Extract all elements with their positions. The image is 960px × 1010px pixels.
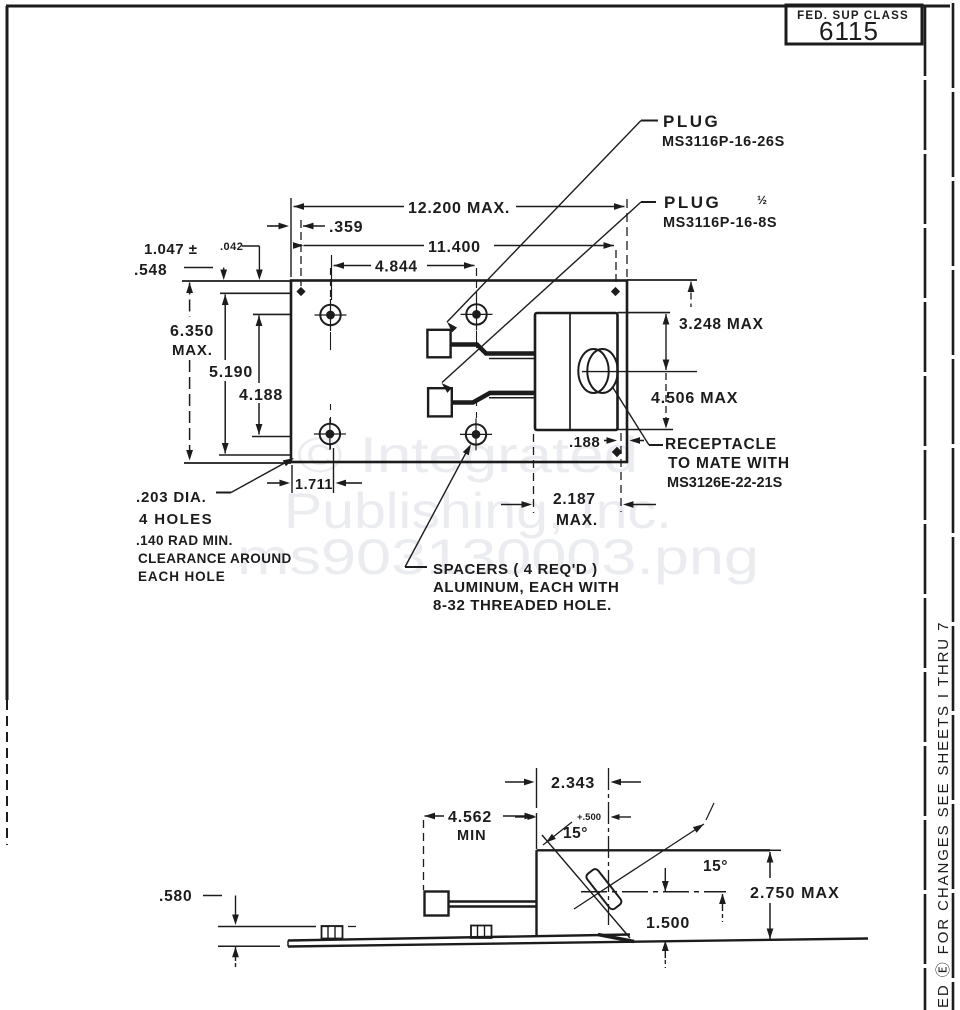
dimension 4.188 vertical <box>256 316 263 327</box>
extension line spacer top level <box>218 926 316 928</box>
dimension 3.248 MAX vertical <box>688 282 695 293</box>
svg-text:.359: .359 <box>329 219 363 236</box>
dimension 2.750 MAX <box>767 852 774 863</box>
fed sup class title box <box>786 5 922 44</box>
svg-text:2.750 MAX: 2.750 MAX <box>750 885 840 902</box>
mounting plate outline <box>291 281 627 463</box>
svg-text:MIN: MIN <box>457 828 487 844</box>
tilted connector body <box>585 868 623 911</box>
vertical center line through connector <box>608 768 610 925</box>
wire from plug P2 <box>452 393 535 403</box>
svg-text:.140 RAD MIN.: .140 RAD MIN. <box>136 533 233 548</box>
leader to plug P2 <box>641 201 656 203</box>
dimension 4.844 <box>331 255 333 300</box>
leader to spacer hole <box>405 566 427 568</box>
dimension 11.400 <box>293 242 304 249</box>
svg-text:1.047 ±: 1.047 ± <box>144 241 197 258</box>
svg-text:15°: 15° <box>703 858 728 875</box>
spacer side view 2 <box>471 926 492 939</box>
receptacle housing side view left edge <box>535 850 537 937</box>
dimension 5.190 vertical <box>222 295 229 306</box>
receptacle center line <box>582 371 697 373</box>
svg-text:1.711: 1.711 <box>295 477 333 493</box>
dimension 1.711 <box>291 465 293 493</box>
svg-text:.548: .548 <box>134 262 167 279</box>
leader to .203 hole note <box>216 492 231 494</box>
svg-text:6.350: 6.350 <box>170 323 214 340</box>
svg-text:.203 DIA.: .203 DIA. <box>136 489 207 506</box>
svg-text:PLUG: PLUG <box>663 112 720 131</box>
svg-text:RECEPTACLE: RECEPTACLE <box>665 436 777 453</box>
dimension 6.350 MAX vertical <box>186 283 193 294</box>
svg-text:ALUMINUM, EACH WITH: ALUMINUM, EACH WITH <box>433 579 619 596</box>
plug square P2 <box>428 388 452 416</box>
dimension 12.200 MAX. <box>290 198 292 277</box>
svg-text:15°: 15° <box>563 825 588 842</box>
extension line base bottom level <box>218 945 280 947</box>
svg-text:SPACERS ( 4 REQ'D ): SPACERS ( 4 REQ'D ) <box>433 561 598 578</box>
svg-text:½: ½ <box>757 193 768 207</box>
svg-text:5.190: 5.190 <box>209 364 253 381</box>
extension line 5.190 bottom level <box>219 454 290 456</box>
plug side view square <box>425 892 449 916</box>
housing foot thick segment <box>598 935 634 942</box>
svg-text:4.506 MAX: 4.506 MAX <box>651 390 738 407</box>
mounting hole 4 <box>466 424 486 444</box>
page right border inner line <box>924 6 927 1010</box>
mounting hole 3 <box>466 304 486 324</box>
plate bottom edge extension left <box>184 462 291 464</box>
plug side view rod <box>449 900 537 902</box>
svg-text:4.562: 4.562 <box>448 809 492 826</box>
receptacle barrel front ellipse <box>587 349 617 393</box>
wire from plug P1 <box>451 345 535 354</box>
receptacle bottom edge extension <box>618 429 674 431</box>
svg-text:MS3116P-16-8S: MS3116P-16-8S <box>663 215 777 231</box>
page top border <box>6 5 950 8</box>
receptacle housing <box>535 313 618 430</box>
svg-text:PLUG: PLUG <box>664 193 721 212</box>
dimension 2.343 <box>536 768 538 849</box>
dimension +.500 <box>528 814 537 820</box>
hole column center line mid <box>476 268 478 299</box>
svg-text:+.500: +.500 <box>577 812 601 823</box>
reference diamond 11.400 right top <box>615 250 617 286</box>
dimension 4.506 MAX vertical <box>665 373 667 420</box>
svg-text:2.187: 2.187 <box>553 491 596 508</box>
svg-text:MS3116P-16-26S: MS3116P-16-26S <box>662 134 785 150</box>
horizontal center line through connector <box>581 891 726 893</box>
spacer side view 1 <box>322 926 343 939</box>
tilted connector axis line <box>574 824 704 909</box>
plug square P1 <box>427 330 450 358</box>
svg-text:12.200 MAX.: 12.200 MAX. <box>408 200 510 217</box>
plate top edge extension left <box>182 280 291 282</box>
reference line .359 with diamond ends <box>300 220 302 286</box>
dimension 2.187 MAX. <box>533 434 535 513</box>
svg-text:CLEARANCE AROUND: CLEARANCE AROUND <box>138 551 292 566</box>
svg-text:2.343: 2.343 <box>551 775 595 792</box>
base plate left end cap <box>287 941 289 947</box>
svg-text:4.188: 4.188 <box>239 387 283 404</box>
revision note ED (E) FOR CHANGES SEE SHEETS I THRU 7 <box>935 621 952 1008</box>
svg-text:MAX.: MAX. <box>556 512 598 529</box>
svg-text:ED Ⓔ FOR CHANGES SEE SHEETS I: ED Ⓔ FOR CHANGES SEE SHEETS I THRU 7 <box>935 621 952 1008</box>
dimension 4.562 MIN <box>423 820 425 890</box>
svg-text:6115: 6115 <box>819 16 879 46</box>
svg-text:1.500: 1.500 <box>646 915 690 932</box>
svg-text:MS3126E-22-21S: MS3126E-22-21S <box>667 475 783 491</box>
svg-text:MAX.: MAX. <box>172 342 213 359</box>
angle 15 deg upper left <box>543 822 572 845</box>
mounting hole 2 <box>320 424 340 444</box>
receptacle housing divider <box>569 313 571 430</box>
svg-text:11.400: 11.400 <box>428 239 481 256</box>
svg-text:4.844: 4.844 <box>375 259 418 276</box>
leader to receptacle <box>649 444 663 446</box>
svg-text:4 HOLES: 4 HOLES <box>139 511 213 528</box>
dimension .359 <box>279 223 290 230</box>
svg-text:.042: .042 <box>220 241 243 253</box>
receptacle top edge extension <box>618 312 671 314</box>
dimension 1.500 <box>664 868 666 891</box>
receptacle barrel rear ellipse <box>578 349 608 393</box>
mounting hole 1 <box>320 305 340 325</box>
plate top edge extension right <box>627 279 697 281</box>
svg-text:EACH HOLE: EACH HOLE <box>138 569 226 584</box>
leader to plug P1 <box>641 120 658 122</box>
svg-text:.580: .580 <box>159 888 192 905</box>
extension line hole top center <box>253 313 290 315</box>
extension line .548 level <box>220 292 290 294</box>
base plate side view top line <box>288 935 630 941</box>
svg-text:8-32 THREADED HOLE.: 8-32 THREADED HOLE. <box>433 597 612 614</box>
svg-text:TO MATE WITH: TO MATE WITH <box>668 455 790 472</box>
extension line hole bottom center <box>252 436 290 438</box>
svg-text:3.248 MAX: 3.248 MAX <box>679 316 764 333</box>
hole column center line left <box>330 268 332 300</box>
svg-text:.188: .188 <box>569 434 600 451</box>
base plate side view bottom line <box>288 939 868 947</box>
page right border outer line <box>952 3 955 1010</box>
receptacle housing tilted face <box>542 835 630 938</box>
receptacle housing side view top edge <box>537 849 771 851</box>
page left border <box>6 6 9 700</box>
reference diamond lower right <box>612 447 622 457</box>
